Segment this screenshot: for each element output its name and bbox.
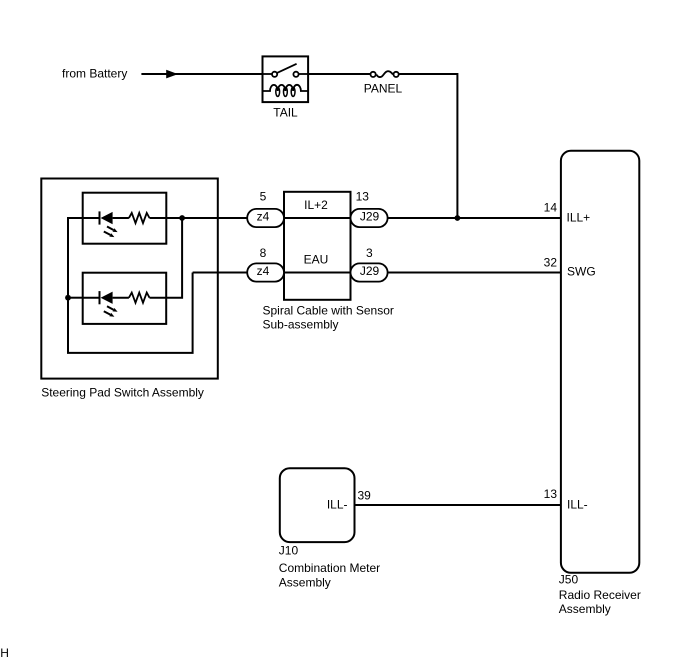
svg-text:ILL-: ILL-: [567, 497, 588, 511]
svg-text:z4: z4: [257, 209, 270, 223]
svg-text:Radio Receiver: Radio Receiver: [559, 588, 641, 602]
svg-text:Steering Pad Switch Assembly: Steering Pad Switch Assembly: [41, 386, 204, 400]
svg-text:32: 32: [544, 255, 558, 269]
svg-text:EAU: EAU: [304, 253, 329, 267]
svg-text:TAIL: TAIL: [273, 105, 298, 119]
svg-text:13: 13: [544, 487, 558, 501]
svg-text:Combination Meter: Combination Meter: [279, 561, 380, 575]
svg-text:z4: z4: [257, 264, 270, 278]
svg-text:Spiral Cable with Sensor: Spiral Cable with Sensor: [263, 304, 394, 318]
svg-text:14: 14: [544, 201, 558, 215]
svg-text:from Battery: from Battery: [62, 67, 127, 81]
svg-text:ILL-: ILL-: [327, 497, 348, 511]
svg-text:3: 3: [366, 246, 373, 260]
svg-text:5: 5: [260, 189, 267, 203]
svg-text:ILL+: ILL+: [567, 210, 591, 224]
svg-text:Assembly: Assembly: [279, 576, 331, 590]
svg-text:13: 13: [356, 189, 370, 203]
svg-text:J10: J10: [279, 544, 299, 558]
svg-text:J29: J29: [360, 264, 380, 278]
svg-text:J50: J50: [559, 573, 579, 587]
svg-text:IL+2: IL+2: [304, 198, 328, 212]
svg-text:SWG: SWG: [567, 265, 596, 279]
svg-text:J29: J29: [360, 209, 380, 223]
svg-text:Assembly: Assembly: [559, 602, 611, 616]
svg-text:Sub-assembly: Sub-assembly: [263, 318, 339, 332]
svg-text:H: H: [0, 646, 9, 658]
svg-text:PANEL: PANEL: [364, 81, 403, 95]
svg-text:8: 8: [260, 246, 267, 260]
svg-text:39: 39: [358, 489, 372, 503]
